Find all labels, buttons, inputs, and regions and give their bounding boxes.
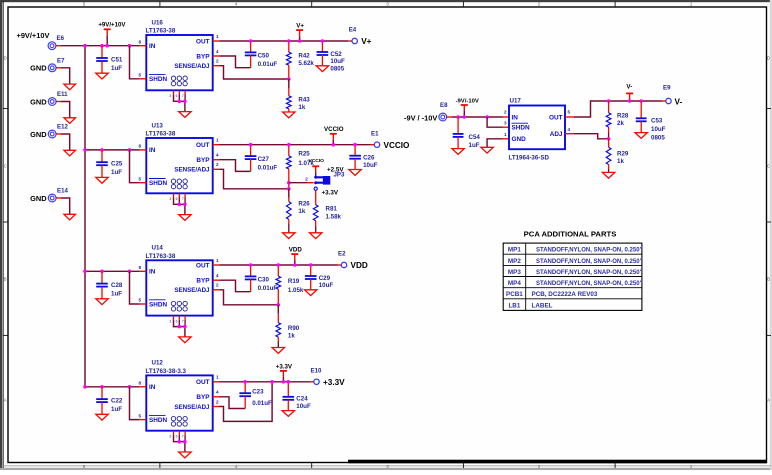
svg-text:STANDOFF,NYLON, SNAP-ON, 0.250: STANDOFF,NYLON, SNAP-ON, 0.250"	[536, 281, 643, 287]
junction C52 top	[321, 39, 325, 43]
wire input to U14 IN pin	[85, 270, 140, 272]
junction -9V tap	[463, 115, 467, 119]
junction C27 top	[249, 143, 253, 147]
svg-text:E7: E7	[57, 57, 65, 64]
svg-text:U17: U17	[510, 98, 522, 105]
svg-text:1uF: 1uF	[111, 65, 122, 72]
svg-text:PCB1: PCB1	[506, 291, 523, 298]
wire U17 ADJ to divider	[565, 133, 574, 135]
regulator U14 ground pin stubs	[173, 316, 175, 320]
wire U12 ground pins to ground	[174, 435, 185, 442]
ground symbol under R43	[283, 112, 295, 118]
svg-text:U16: U16	[152, 19, 164, 26]
capacitor C54 1uF	[457, 117, 459, 134]
svg-text:C: C	[767, 164, 770, 169]
resistor R43 1k	[288, 79, 290, 88]
wire U12 SHDN branch	[130, 387, 140, 420]
svg-text:8: 8	[138, 265, 141, 270]
svg-text:+3.3V: +3.3V	[276, 363, 293, 370]
svg-text:VCCIO: VCCIO	[384, 141, 411, 150]
svg-text:R42: R42	[298, 53, 310, 60]
svg-text:6: 6	[176, 435, 178, 439]
svg-text:7: 7	[182, 435, 184, 439]
svg-text:C: C	[4, 164, 7, 169]
junction C23 top	[243, 380, 247, 384]
svg-text:U12: U12	[152, 360, 164, 367]
turret E2	[341, 262, 346, 267]
svg-text:R81: R81	[326, 206, 338, 213]
svg-text:4: 4	[216, 153, 219, 158]
capacitor C30 0.01uF	[250, 265, 252, 276]
junction R42 top	[287, 39, 291, 43]
wire U13 SENSE/ADJ to divider	[213, 168, 220, 170]
ground symbol under R26	[283, 233, 295, 239]
junction U12 SENSE loop	[270, 380, 274, 384]
svg-text:1k: 1k	[298, 208, 305, 215]
svg-text:C26: C26	[363, 155, 375, 162]
junction C54	[456, 115, 460, 119]
svg-text:E1: E1	[371, 130, 379, 137]
svg-text:R19: R19	[288, 278, 300, 285]
table PCA additional parts	[503, 243, 642, 310]
svg-text:BYP: BYP	[196, 394, 210, 401]
svg-text:2: 2	[216, 162, 219, 167]
svg-text:5: 5	[568, 110, 571, 115]
svg-text:SENSE/ADJ: SENSE/ADJ	[174, 287, 210, 294]
svg-text:V-: V-	[626, 84, 632, 91]
svg-text:C29: C29	[319, 275, 331, 282]
turret E4	[352, 38, 357, 43]
svg-text:4: 4	[216, 273, 219, 278]
wire E14 to ground	[56, 197, 61, 199]
power tap +9V/+10V at U16 input	[106, 29, 108, 35]
svg-text:STANDOFF,NYLON, SNAP-ON, 0.250: STANDOFF,NYLON, SNAP-ON, 0.250"	[536, 248, 643, 254]
svg-text:R25: R25	[298, 151, 310, 158]
svg-text:E10: E10	[311, 368, 322, 375]
power tap V-	[629, 93, 631, 99]
junction C28 input cap	[100, 270, 104, 274]
wire input to U12 IN pin	[85, 386, 140, 388]
svg-text:ADJ: ADJ	[550, 131, 563, 138]
wire U13 BYP to C27	[213, 159, 220, 161]
wire U14 OUT net	[213, 264, 220, 266]
border zone ticks	[159, 2, 161, 7]
wire E6 to input bus	[56, 45, 61, 47]
power tap VDD on U14 output	[294, 254, 296, 260]
svg-text:8: 8	[138, 144, 141, 149]
regulator U13 body	[146, 138, 212, 193]
wire U13 OUT net	[213, 144, 220, 146]
junction U17 divider node	[607, 137, 611, 141]
junction input bus U12	[83, 385, 87, 389]
svg-text:10uF: 10uF	[296, 403, 311, 410]
wire U16 SHDN branch	[130, 46, 140, 79]
turret E10	[314, 379, 319, 384]
svg-text:1.58k: 1.58k	[326, 213, 342, 220]
regulator U16 body	[146, 35, 212, 90]
svg-text:MP2: MP2	[508, 258, 521, 265]
regulator U17 body	[509, 106, 565, 150]
ground symbol under C53	[635, 133, 647, 139]
capacitor C51 1uF	[101, 46, 103, 58]
svg-text:10uF: 10uF	[651, 126, 666, 133]
resistor R90 1k	[277, 305, 279, 314]
turret E9	[666, 98, 671, 103]
capacitor C23 0.01uF	[244, 382, 246, 393]
svg-text:R28: R28	[617, 112, 629, 119]
junction U13 output tap	[332, 143, 336, 147]
junction U13 divider node	[287, 187, 291, 191]
capacitor C52 10uF	[321, 41, 323, 52]
svg-text:1: 1	[216, 138, 219, 143]
svg-text:U14: U14	[152, 245, 164, 252]
resistor R28 2k	[607, 99, 611, 103]
junction U14 SHDN branch	[128, 270, 132, 274]
svg-text:VCCIO: VCCIO	[324, 126, 344, 133]
svg-text:IN: IN	[149, 43, 156, 50]
svg-text:2: 2	[305, 177, 308, 182]
svg-text:3: 3	[169, 197, 171, 201]
turret E6	[48, 42, 56, 50]
svg-text:D: D	[767, 56, 770, 61]
wire E12 to ground	[56, 133, 61, 135]
svg-text:E4: E4	[349, 27, 357, 34]
wire U17 OUT to V- rail	[565, 116, 574, 118]
svg-text:LABEL: LABEL	[532, 303, 553, 310]
svg-text:C22: C22	[111, 398, 123, 405]
svg-text:SHDN: SHDN	[149, 417, 167, 424]
svg-text:D: D	[4, 56, 7, 61]
svg-text:1k: 1k	[617, 158, 624, 165]
svg-text:5.62k: 5.62k	[298, 60, 314, 67]
svg-text:6: 6	[176, 94, 178, 98]
svg-text:+3.3V: +3.3V	[323, 378, 345, 387]
wire U14 SENSE/ADJ to divider	[213, 289, 220, 291]
ground symbol at E11	[64, 118, 76, 124]
svg-text:SENSE/ADJ: SENSE/ADJ	[174, 167, 210, 174]
svg-text:GND: GND	[512, 136, 527, 143]
svg-text:5: 5	[138, 413, 141, 418]
svg-text:V+: V+	[296, 23, 304, 30]
junction C22 input cap	[100, 385, 104, 389]
power tap VCCIO on U13 output	[332, 134, 334, 140]
junction C50 top	[249, 39, 253, 43]
svg-text:C54: C54	[469, 134, 481, 141]
ground symbol under C52	[316, 66, 328, 72]
svg-text:8: 8	[138, 381, 141, 386]
svg-text:1: 1	[216, 34, 219, 39]
regulator U12 ground pin stubs	[173, 431, 175, 435]
ground symbol under U13	[179, 215, 191, 221]
svg-text:R26: R26	[298, 201, 310, 208]
svg-text:STANDOFF,NYLON, SNAP-ON, 0.250: STANDOFF,NYLON, SNAP-ON, 0.250"	[536, 259, 643, 265]
junction input bus U13	[83, 148, 87, 152]
svg-text:OUT: OUT	[196, 262, 210, 269]
svg-text:C50: C50	[258, 52, 270, 59]
junction E6 wire to bus	[83, 44, 87, 48]
ground symbol under R81	[310, 233, 322, 239]
svg-text:2: 2	[216, 283, 219, 288]
svg-text:E2: E2	[338, 251, 346, 258]
ground symbol under R90	[272, 348, 284, 354]
junction U17 SHDN branch	[485, 115, 489, 119]
svg-text:-9V / -10V: -9V / -10V	[404, 113, 437, 122]
svg-text:OUT: OUT	[196, 38, 210, 45]
svg-text:BYP: BYP	[196, 157, 210, 164]
ground symbol at E12	[64, 150, 76, 156]
svg-text:1uF: 1uF	[469, 142, 480, 149]
svg-text:SHDN: SHDN	[149, 180, 167, 187]
svg-text:IN: IN	[149, 384, 156, 391]
svg-text:10uF: 10uF	[319, 282, 334, 289]
wire E11 to ground	[56, 101, 61, 103]
svg-text:2k: 2k	[617, 120, 624, 127]
svg-text:2: 2	[216, 399, 219, 404]
wire E7 to ground	[56, 67, 61, 69]
wire input to U13 IN pin	[85, 149, 140, 151]
svg-text:IN: IN	[149, 269, 156, 276]
ground symbol under R29	[602, 172, 614, 178]
svg-text:7: 7	[182, 94, 184, 98]
svg-text:0.01uF: 0.01uF	[258, 285, 278, 292]
capacitor C29 10uF	[310, 265, 312, 276]
capacitor C24 10uF	[287, 382, 289, 397]
ground symbol under U14	[179, 337, 191, 343]
svg-text:2: 2	[504, 110, 507, 115]
svg-text:OUT: OUT	[196, 142, 210, 149]
junction U13 divider to JP3	[287, 181, 291, 185]
ground symbol under C25	[96, 177, 108, 183]
wire U14 BYP to C30	[213, 279, 220, 281]
svg-text:LT1763-38: LT1763-38	[146, 253, 176, 260]
wire input to U16 IN pin	[85, 45, 140, 47]
svg-text:E11: E11	[57, 91, 68, 98]
svg-text:C27: C27	[258, 156, 270, 163]
svg-text:6: 6	[176, 197, 178, 201]
ground symbol under C51	[96, 73, 108, 79]
svg-text:C28: C28	[111, 282, 123, 289]
svg-text:E6: E6	[57, 35, 65, 42]
capacitor C27 0.01uF	[250, 145, 252, 156]
svg-text:2: 2	[216, 59, 219, 64]
svg-text:7: 7	[182, 319, 184, 323]
svg-text:C30: C30	[258, 276, 270, 283]
junction U13 SHDN branch	[128, 148, 132, 152]
junction R19 top	[277, 263, 281, 267]
svg-text:5: 5	[138, 298, 141, 303]
svg-text:VDD: VDD	[351, 261, 368, 270]
svg-text:MP1: MP1	[508, 247, 521, 254]
svg-text:E14: E14	[57, 188, 68, 195]
svg-text:GND: GND	[30, 97, 47, 106]
resistor R19 1.05k	[277, 265, 279, 276]
junction C30 top	[249, 263, 253, 267]
capacitor C26 10uF	[354, 145, 356, 156]
wire U16 ground pins to ground	[174, 95, 185, 102]
junction C29 top	[309, 263, 313, 267]
svg-text:V+: V+	[361, 37, 371, 46]
svg-text:V-: V-	[675, 97, 683, 106]
wire U17 SHDN branch	[487, 117, 502, 127]
regulator U14 ground pin circles	[171, 301, 175, 305]
svg-text:5: 5	[138, 176, 141, 181]
ground symbol at E14	[64, 214, 76, 220]
svg-text:IN: IN	[512, 114, 519, 121]
svg-text:1k: 1k	[288, 333, 295, 340]
capacitor C50 0.01uF	[250, 41, 252, 52]
svg-text:IN: IN	[149, 147, 156, 154]
svg-text:BYP: BYP	[196, 278, 210, 285]
svg-text:E9: E9	[663, 85, 671, 92]
wire U14 SHDN branch	[130, 271, 140, 304]
svg-text:7: 7	[182, 197, 184, 201]
svg-text:R43: R43	[298, 97, 310, 104]
svg-text:1.05k: 1.05k	[288, 287, 304, 294]
svg-text:0.01uF: 0.01uF	[258, 165, 278, 172]
wire U16 OUT net	[213, 40, 220, 42]
junction U16 output tap	[298, 39, 302, 43]
power tap -9V/-10V	[463, 105, 465, 111]
svg-text:5: 5	[138, 73, 141, 78]
svg-text:U13: U13	[152, 122, 164, 129]
svg-text:0.01uF: 0.01uF	[258, 61, 278, 68]
svg-text:OUT: OUT	[196, 379, 210, 386]
svg-text:LB1: LB1	[508, 303, 520, 310]
ground symbol under C26	[349, 170, 361, 176]
regulator U12 ground pin circles	[171, 416, 175, 420]
junction V- tap	[628, 99, 632, 103]
svg-text:R29: R29	[617, 151, 629, 158]
svg-text:0805: 0805	[330, 65, 344, 72]
turret E1	[374, 142, 379, 147]
svg-text:SHDN: SHDN	[149, 76, 167, 83]
svg-text:+2.5V: +2.5V	[327, 167, 344, 174]
svg-text:1k: 1k	[298, 104, 305, 111]
svg-text:VDD: VDD	[289, 247, 303, 254]
title block top edge	[348, 460, 767, 464]
svg-text:SENSE/ADJ: SENSE/ADJ	[174, 404, 210, 411]
power tap +3.3V on U12 output	[282, 371, 284, 377]
svg-text:C24: C24	[296, 396, 308, 403]
ground symbol under C29	[305, 290, 317, 296]
svg-text:PCB, DC2222A REV03: PCB, DC2222A REV03	[532, 291, 598, 298]
resistor R26 1k	[288, 189, 290, 198]
wire U12 SENSE/ADJ to output	[213, 406, 220, 408]
svg-text:C53: C53	[651, 118, 663, 125]
wire E8 to U17 IN	[447, 116, 452, 118]
junction C25 input cap	[100, 148, 104, 152]
wire U16 BYP to C50	[213, 55, 220, 57]
svg-text:8: 8	[138, 39, 141, 44]
svg-text:3: 3	[169, 319, 171, 323]
ground symbol under U12	[179, 452, 191, 458]
svg-text:4: 4	[216, 390, 219, 395]
junction U12 output tap	[282, 380, 286, 384]
svg-text:MP3: MP3	[508, 269, 521, 276]
resistor R25 1.07k	[288, 145, 290, 156]
svg-text:+3.3V: +3.3V	[322, 189, 339, 196]
svg-text:+9V/+10V: +9V/+10V	[98, 21, 126, 28]
svg-text:0.01uF: 0.01uF	[252, 400, 272, 407]
junction U14 output tap	[293, 263, 297, 267]
wire U12 OUT net	[213, 381, 220, 383]
svg-text:B: B	[4, 277, 7, 282]
wire U12 BYP to C23	[213, 396, 220, 398]
ground symbol under C28	[96, 299, 108, 305]
junction U14 divider node	[277, 303, 281, 307]
svg-text:B: B	[767, 277, 770, 282]
svg-text:C23: C23	[252, 389, 264, 396]
svg-text:E8: E8	[440, 102, 448, 109]
svg-text:C52: C52	[330, 51, 342, 58]
svg-text:4: 4	[216, 49, 219, 54]
svg-text:+9V/+10V: +9V/+10V	[17, 31, 50, 40]
svg-text:E12: E12	[57, 124, 68, 131]
power tap V+ on U16 output	[299, 30, 301, 36]
svg-text:-9V/-10V: -9V/-10V	[456, 98, 479, 104]
wire U13 ground pins to ground	[174, 198, 185, 205]
regulator U16 ground pin circles	[171, 76, 175, 80]
resistor R29 1k	[608, 139, 610, 148]
wire U16 SENSE/ADJ to divider	[213, 65, 220, 67]
svg-text:GND: GND	[30, 130, 47, 139]
ground symbol at U17 GND	[481, 147, 493, 153]
svg-text:LT1964-36-SD: LT1964-36-SD	[509, 155, 550, 162]
svg-text:3: 3	[504, 121, 507, 126]
svg-text:1: 1	[216, 258, 219, 263]
capacitor C28 1uF	[101, 271, 103, 283]
junction C24 top	[287, 380, 291, 384]
capacitor C25 1uF	[101, 150, 103, 162]
svg-text:C25: C25	[111, 161, 123, 168]
svg-text:VCCIO: VCCIO	[308, 158, 324, 164]
svg-text:0805: 0805	[651, 135, 665, 142]
svg-text:A: A	[4, 398, 7, 403]
capacitor C22 1uF	[101, 387, 103, 399]
svg-text:3: 3	[169, 94, 171, 98]
sheet border frame	[0, 0, 772, 2]
svg-text:R90: R90	[288, 325, 300, 332]
svg-text:MP4: MP4	[508, 280, 521, 287]
svg-text:STANDOFF,NYLON, SNAP-ON, 0.250: STANDOFF,NYLON, SNAP-ON, 0.250"	[536, 270, 643, 276]
turret E8	[439, 113, 447, 121]
svg-text:SENSE/ADJ: SENSE/ADJ	[174, 63, 210, 70]
svg-text:SHDN: SHDN	[149, 301, 167, 308]
wire U13 divider to JP3 pin 2	[289, 182, 307, 184]
capacitor C53 10uF 0805	[639, 99, 643, 103]
svg-text:3: 3	[169, 435, 171, 439]
junction U12 SHDN branch	[128, 385, 132, 389]
ground symbol under C22	[96, 414, 108, 420]
svg-text:BYP: BYP	[196, 53, 210, 60]
regulator U13 ground pin circles	[171, 179, 175, 183]
svg-text:GND: GND	[30, 64, 47, 73]
svg-text:4: 4	[568, 127, 571, 132]
svg-text:SHDN: SHDN	[512, 125, 530, 132]
svg-text:1: 1	[216, 375, 219, 380]
power tap VCCIO above JP3	[315, 166, 317, 172]
ground symbol under C24	[282, 411, 294, 417]
jumper JP3	[317, 177, 326, 182]
junction U16 divider node	[287, 77, 291, 81]
wire U14 ground pins to ground	[174, 320, 185, 327]
junction R25 top	[287, 143, 291, 147]
svg-text:1uF: 1uF	[111, 291, 122, 298]
wire U13 SHDN branch	[130, 150, 140, 183]
ground symbol under C54	[452, 149, 464, 155]
svg-text:GND: GND	[30, 194, 47, 203]
junction C26 top	[353, 143, 357, 147]
